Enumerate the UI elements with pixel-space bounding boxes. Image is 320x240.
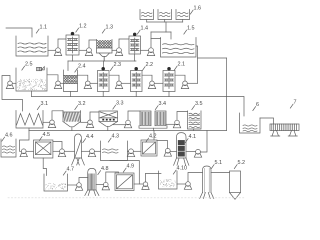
- pump P2b: [115, 81, 122, 89]
- label 5.1: [211, 165, 214, 169]
- tank 2.5: [16, 68, 47, 91]
- wire pump to unit 3.5: [177, 112, 188, 121]
- motor dot on 2.2: [134, 67, 138, 71]
- label 2.1: [174, 66, 177, 70]
- label 4.8: [98, 171, 101, 175]
- pump P3c: [124, 120, 131, 128]
- unit 4.1 adsorption column: [177, 133, 187, 158]
- label 7: [290, 104, 293, 108]
- wire pump to unit 3.3: [90, 112, 99, 120]
- wire 2.4 outlet to pump: [60, 82, 63, 84]
- wire 3.5 bottom stub: [193, 129, 195, 131]
- label 4.10: [173, 170, 176, 174]
- wire 4.3 drain to pump P5c: [110, 161, 139, 185]
- wire drop to 4.6 and pump: [20, 131, 30, 152]
- unit 4.4 membrane column: [75, 134, 82, 158]
- wire row2 bottoms header: [32, 96, 227, 98]
- label 4.5: [39, 137, 42, 141]
- svg-text:3.4: 3.4: [159, 101, 167, 107]
- unit 5.2 cyclone silo: [230, 171, 241, 193]
- legs of 5.1: [200, 193, 214, 199]
- wire feed into tank 1.1: [6, 28, 32, 37]
- motor dot on 1.2: [71, 32, 75, 36]
- svg-text:3.3: 3.3: [116, 101, 124, 107]
- wire 3.1 outlet to pump: [43, 121, 50, 123]
- wire pump to tank 1.5: [151, 39, 161, 48]
- svg-text:2.4: 2.4: [78, 64, 86, 70]
- svg-text:4.6: 4.6: [5, 133, 13, 139]
- svg-text:4.2: 4.2: [149, 134, 157, 140]
- wire 3.3 bottom stub: [107, 126, 109, 130]
- svg-text:4.9: 4.9: [127, 164, 135, 170]
- wire 1.5 branch to right main: [198, 57, 227, 59]
- tank 1.5: [161, 38, 197, 58]
- wire pump to 4.3: [94, 150, 100, 152]
- svg-text:4.8: 4.8: [101, 166, 109, 172]
- wire 4.3 outlet to pump: [128, 150, 129, 152]
- pump P2d: [54, 81, 61, 89]
- unit 1.3 crosshatch feeder: [97, 40, 113, 54]
- pump P4a: [164, 148, 171, 156]
- label 2.4: [75, 68, 78, 72]
- svg-text:1.3: 1.3: [106, 25, 114, 31]
- column 1.4: [129, 36, 141, 54]
- unit 2.4 crosshatch vessel: [64, 70, 78, 92]
- wire pump to unit 3.2: [52, 111, 63, 120]
- wire 3.1 bottom stub: [28, 128, 30, 131]
- wire 3.2 bottom stub: [71, 127, 73, 131]
- wire row3 transfer line: [29, 130, 227, 132]
- label 2.3: [110, 67, 113, 71]
- wire 4.10 outlet to pump: [177, 183, 186, 185]
- wire pump discharge into 2.2: [142, 75, 152, 81]
- wire right main vertical: [226, 58, 228, 131]
- wire 4.9 outlet: [134, 183, 143, 185]
- dashed base line: [8, 197, 245, 199]
- pump P1a: [54, 48, 61, 56]
- label 5.2: [234, 165, 237, 169]
- pump P4b: [127, 149, 134, 157]
- svg-text:1.6: 1.6: [194, 6, 202, 12]
- wire pump to unit 1.3: [89, 40, 97, 48]
- pump P2a: [148, 81, 155, 89]
- unit 3.1 zigzag screen: [16, 111, 43, 129]
- wire pump to 4.8: [79, 178, 88, 183]
- wire 1.3 bottom stub: [103, 57, 105, 62]
- wire pump discharge into 2.5: [48, 75, 59, 81]
- wire pump discharge into 2.3: [109, 75, 119, 81]
- reagent tank 1.6-3: [176, 10, 190, 20]
- label 1.5: [184, 30, 187, 34]
- motor dot on 1.4: [133, 33, 137, 37]
- pump P1d: [147, 48, 154, 56]
- label 1.6: [190, 10, 193, 14]
- tank 1.1: [16, 36, 48, 56]
- wire 2.4 bottom stub: [70, 92, 72, 97]
- pump P4d: [58, 149, 65, 157]
- svg-text:1.4: 1.4: [141, 26, 149, 32]
- unit 3.3 flotation cell: [99, 111, 118, 122]
- unit 3.4 electrolysis cells: [140, 111, 151, 126]
- wire 4.4 outlet to pump: [82, 150, 90, 152]
- pump P4f after 4.1: [194, 149, 201, 157]
- wire pump riser to 5.1: [188, 173, 203, 182]
- pump P3a: [48, 120, 55, 128]
- label 4.3: [108, 138, 111, 142]
- motor dot on 2.1: [167, 67, 171, 71]
- wire pump to column 1.4: [119, 39, 129, 48]
- wire 4.2 outlet to pump P4a: [157, 141, 168, 149]
- reagent tank 1.6-2: [158, 10, 172, 20]
- unit 4.5 filter press: [34, 140, 53, 158]
- svg-text:4.10: 4.10: [177, 166, 188, 172]
- label 3.5: [192, 106, 195, 110]
- wire 2.3 outlet to pump: [90, 82, 97, 84]
- pump P5a: [75, 183, 82, 191]
- column 2.1: [163, 71, 175, 92]
- wire 2.3 bottom stub: [102, 92, 104, 97]
- label 6: [253, 107, 256, 111]
- svg-text:7: 7: [294, 100, 297, 106]
- wire pump to 4.2: [133, 150, 141, 152]
- svg-text:2.5: 2.5: [25, 62, 33, 68]
- label 2.2: [142, 67, 145, 71]
- wire 2.2 bottom stub: [135, 92, 137, 97]
- pump P2f feed from 1.5: [181, 81, 188, 89]
- wire 4.5 drop into 4.7: [43, 158, 46, 176]
- grate on 2.5: [37, 67, 45, 71]
- wire 2.1 outlet to pump: [154, 82, 163, 84]
- wire row1 bottoms header: [68, 60, 136, 62]
- label 4.6: [2, 137, 5, 141]
- wire 1.4 bottom stub: [134, 54, 136, 61]
- unit 5.1 evaporator: [203, 166, 212, 193]
- pump P4c: [88, 149, 95, 157]
- pump P4e: [20, 149, 27, 157]
- wire pump discharge into 2.4: [78, 75, 88, 81]
- wire 2.1 bottom stub: [168, 92, 170, 97]
- svg-text:4.5: 4.5: [43, 132, 51, 138]
- wire 1.6 manifold: [146, 20, 148, 23]
- wire 5.1 to 5.2: [211, 172, 230, 174]
- svg-text:4.4: 4.4: [86, 134, 94, 140]
- pump P1c: [115, 48, 122, 56]
- wire 1.2 bottom stub: [72, 55, 74, 61]
- wire transfer drop to pump P4f: [201, 131, 207, 153]
- legs of 7: [271, 131, 298, 137]
- label 4.1: [185, 139, 188, 143]
- pump P5b: [102, 182, 109, 190]
- screw conveyor 7: [270, 124, 299, 131]
- svg-text:5.2: 5.2: [238, 160, 246, 166]
- tank 4.7: [44, 174, 68, 191]
- label 4.2: [146, 138, 149, 142]
- wire 1.3 drop onto 2.3: [102, 61, 104, 69]
- svg-text:3.1: 3.1: [41, 101, 49, 107]
- legs of 4.1: [174, 158, 189, 165]
- svg-text:4.7: 4.7: [67, 167, 75, 173]
- wire 2.2 outlet to pump: [121, 82, 130, 84]
- svg-text:1.5: 1.5: [187, 26, 195, 32]
- label 4.7: [63, 171, 66, 175]
- wire pump to 4.4: [64, 150, 74, 152]
- svg-text:5.1: 5.1: [215, 160, 223, 166]
- label 1.4: [137, 30, 140, 34]
- tank 4.6: [1, 139, 16, 157]
- wire 1.4 to pump: [141, 49, 149, 51]
- unit 3.2 coil vessel: [63, 111, 81, 122]
- wire pump to 4.5: [26, 150, 33, 152]
- column 2.2: [131, 71, 143, 92]
- unit 4.9 membrane module: [115, 173, 134, 191]
- label 4.9: [123, 168, 126, 172]
- wire 4.7 outlet to pump: [68, 184, 77, 186]
- svg-text:3.5: 3.5: [195, 101, 203, 107]
- svg-text:2.3: 2.3: [114, 62, 122, 68]
- wire pump to 4.10: [146, 173, 162, 182]
- wire 1.2 to pump: [79, 49, 87, 51]
- wire 3.2 outlet to pump: [81, 121, 88, 123]
- wire pump 2.5 down to unit 3.1: [2, 76, 23, 112]
- wire pump to 4.9: [106, 172, 119, 182]
- label 1.2: [76, 28, 79, 32]
- reagent tank 1.6-1: [140, 10, 154, 20]
- svg-text:4.3: 4.3: [112, 134, 120, 140]
- tank 4.10: [159, 171, 178, 189]
- label 3.1: [37, 106, 40, 110]
- label 3.3: [113, 105, 116, 109]
- svg-text:1.1: 1.1: [40, 25, 48, 31]
- column 2.3: [98, 71, 110, 92]
- label 1.1: [36, 29, 39, 33]
- svg-text:1.2: 1.2: [79, 24, 87, 30]
- legs of 4.4: [72, 158, 85, 165]
- svg-text:6: 6: [256, 102, 259, 108]
- wire 2.5 outlet to pump: [12, 82, 16, 84]
- wire drop onto 4.2: [153, 131, 155, 141]
- pump P2c: [84, 81, 91, 89]
- pump P3b: [86, 120, 93, 128]
- wire 2.5 bottom stub: [31, 91, 33, 97]
- svg-text:3.2: 3.2: [78, 101, 86, 107]
- pump P3d: [173, 120, 180, 128]
- wire drop into 2.4: [67, 61, 69, 71]
- motor dot on 2.3: [101, 67, 105, 71]
- label 4.4: [83, 139, 86, 143]
- svg-text:2.2: 2.2: [146, 62, 154, 68]
- pump P2e left of 2.5: [6, 81, 13, 89]
- wire 3.3 outlet to pump: [113, 124, 126, 126]
- svg-text:2.1: 2.1: [178, 62, 186, 68]
- wire tank 1.5 outlet downcomer: [196, 46, 198, 83]
- wire 3.4 bottom stub: [153, 128, 155, 130]
- unit 4.8 ion exchange column: [88, 168, 96, 190]
- wire 4.5 outlet to pump: [53, 142, 62, 149]
- legs of 4.8: [85, 190, 99, 196]
- unit 4.2 membrane module: [141, 140, 157, 156]
- pump P5c: [142, 182, 149, 190]
- tank 4.3: [101, 141, 128, 161]
- wire 3.4 outlet to pump: [166, 123, 175, 125]
- svg-text:4.1: 4.1: [189, 134, 197, 140]
- wire 1.1 to pump: [48, 49, 56, 51]
- wire pump to unit 3.4: [128, 111, 140, 120]
- wire pump to 4.1: [170, 151, 176, 153]
- unit 3.5 tray washer: [188, 111, 202, 129]
- wire pump to column 1.2: [58, 39, 66, 48]
- wire pump discharge into 2.1: [175, 75, 185, 81]
- label 2.5: [22, 66, 25, 70]
- label 3.2: [75, 106, 78, 110]
- tank 6: [240, 113, 261, 133]
- pump P5d: [184, 182, 191, 190]
- pump P1b: [85, 48, 92, 56]
- wire downcomer to pump suction: [187, 82, 197, 84]
- column 1.2: [66, 35, 79, 55]
- wire 1.3 to pump: [112, 49, 117, 51]
- label 3.4: [155, 106, 158, 110]
- wire branch to tank 6: [227, 97, 245, 117]
- wire 4.8 outlet to pump: [96, 184, 104, 186]
- label 1.3: [102, 29, 105, 33]
- wire 6 outlet to conveyor: [260, 118, 274, 124]
- wire pump 4f discharge into 4.1: [186, 151, 195, 153]
